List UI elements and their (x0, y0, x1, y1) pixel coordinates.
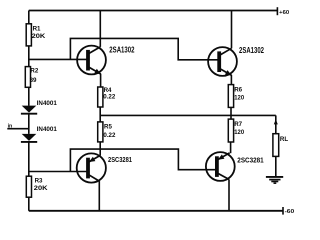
transistor Q3 2SC3281 bottom-left (77, 153, 106, 182)
svg-text:2SA1302: 2SA1302 (109, 46, 135, 55)
diode D2 IN4001 (21, 134, 37, 142)
terminal tick +60 (276, 7, 278, 15)
svg-text:RL: RL (280, 136, 288, 143)
resistor R2 (25, 67, 30, 88)
wire center column top rail to Q1 emitter (99, 11, 101, 47)
transistor Q4 2SC3281 bottom-right (206, 152, 235, 181)
resistor R4 (98, 87, 103, 107)
svg-text:R6: R6 (234, 87, 242, 94)
svg-text:120: 120 (234, 94, 244, 101)
resistor R7 (228, 119, 233, 142)
wire R1 to node A to R2 (28, 46, 30, 67)
wire R4 to output node to R5 (99, 107, 101, 122)
resistor R1 (26, 24, 31, 46)
wire node B to Q3 base (29, 171, 88, 173)
svg-text:IN4001: IN4001 (37, 101, 58, 107)
svg-text:120: 120 (234, 129, 244, 136)
diode D1 IN4001 (21, 106, 37, 114)
wire Q1 collector to R4 (100, 74, 102, 87)
wire node A to Q1 base (29, 58, 88, 60)
svg-text:R3: R3 (35, 177, 43, 184)
transistor Q1 2SA1302 top-left (77, 46, 106, 75)
svg-text:R7: R7 (234, 121, 242, 128)
wire R7 to Q4 (230, 142, 232, 153)
wire R5 to Q3 (99, 142, 101, 156)
wire R6 to output junction to R7 (230, 107, 232, 119)
wire R3 to bottom rail (28, 197, 30, 211)
svg-text:2SA1302: 2SA1302 (239, 46, 265, 55)
wire top rail +60 (29, 10, 278, 12)
resistor R6 (228, 85, 233, 108)
wire Q2 collector to R6 (230, 75, 232, 85)
svg-text:IN4001: IN4001 (37, 127, 58, 133)
svg-text:R1: R1 (33, 25, 41, 32)
svg-text:20K: 20K (32, 33, 46, 40)
resistor R5 (98, 122, 103, 142)
wire D1 to D2 with input node (28, 114, 30, 134)
wire Q4 emitter to bottom rail (228, 179, 230, 210)
svg-text:+60: +60 (279, 10, 289, 16)
ground symbol (266, 177, 283, 183)
wire right column top rail to Q2 emitter (231, 11, 233, 49)
svg-text:2SC3281: 2SC3281 (108, 155, 132, 164)
wire top cross-coupling node A to Q2 base (70, 38, 219, 59)
terminal tick -60 (282, 207, 284, 215)
junction arrow on RL wire (274, 119, 278, 124)
svg-text:R5: R5 (104, 124, 112, 131)
svg-text:20K: 20K (34, 185, 48, 192)
wire left column top (28, 11, 30, 25)
wire R2 to D1 (28, 87, 30, 106)
wire bottom rail -60 (29, 210, 283, 212)
svg-text:-60: -60 (285, 209, 295, 215)
wire D2 to node B to R3 (28, 142, 30, 176)
resistor R3 (26, 176, 31, 197)
wire output line (100, 114, 276, 116)
wire Q3 emitter to bottom rail (98, 181, 100, 211)
svg-text:0.22: 0.22 (103, 132, 116, 139)
resistor RL (273, 134, 279, 157)
wire RL to ground (275, 156, 277, 176)
wire output corner down to RL (275, 115, 277, 133)
wire input line (7, 128, 29, 130)
svg-text:0.22: 0.22 (103, 94, 116, 101)
svg-text:39: 39 (30, 77, 37, 84)
transistor Q2 2SA1302 top-right (208, 47, 237, 76)
svg-text:in: in (8, 124, 13, 130)
wire bottom cross-coupling node B to Q4 base (70, 149, 217, 171)
svg-text:2SC3281: 2SC3281 (237, 155, 263, 164)
svg-text:R2: R2 (30, 68, 38, 75)
